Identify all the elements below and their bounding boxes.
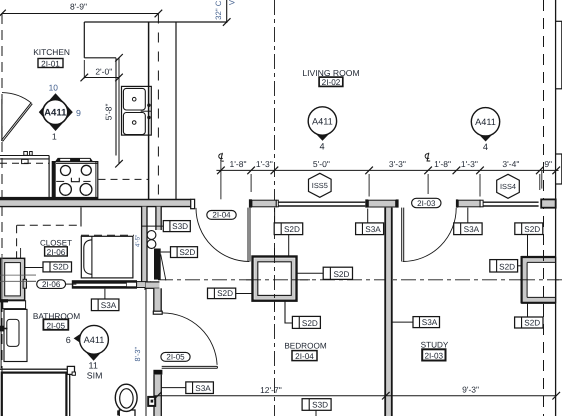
room tag 2I-02 xyxy=(319,77,343,86)
oval tag 2I-05 xyxy=(161,352,190,361)
svg-text:S2D: S2D xyxy=(284,225,300,234)
svg-text:2I-05: 2I-05 xyxy=(166,353,185,362)
stove/range xyxy=(52,162,98,199)
wall bedroom-study xyxy=(385,208,392,416)
svg-text:S2D: S2D xyxy=(217,289,233,298)
bathroom inner wall line xyxy=(145,288,147,416)
svg-text:A411: A411 xyxy=(84,335,105,345)
wall return top right xyxy=(226,0,228,23)
svg-text:STUDY: STUDY xyxy=(421,341,449,350)
door jamb cap dark xyxy=(153,370,162,375)
room tag 2I-06 xyxy=(45,247,68,256)
dimension string upper xyxy=(216,169,558,171)
svg-text:S3D: S3D xyxy=(312,401,328,410)
dimension 8'-9" xyxy=(2,13,158,15)
svg-text:3'-3": 3'-3" xyxy=(389,159,406,169)
bedroom column xyxy=(253,257,297,301)
hexagon ISS4 xyxy=(497,174,520,198)
chase centerline a xyxy=(0,274,36,276)
svg-text:S3A: S3A xyxy=(365,225,381,234)
study door leaf xyxy=(401,208,403,262)
svg-text:5'-0": 5'-0" xyxy=(313,159,330,169)
svg-text:2I-06: 2I-06 xyxy=(47,248,66,257)
keynote S2D bedroom lower xyxy=(285,300,292,323)
svg-text:32" C: 32" C xyxy=(214,0,223,20)
keynote S3A laundry xyxy=(104,289,106,299)
svg-text:KITCHEN: KITCHEN xyxy=(33,47,70,57)
centerline vertical mid xyxy=(274,0,276,416)
svg-text:S2D: S2D xyxy=(524,318,540,327)
corridor wall horizontal xyxy=(0,200,191,207)
keynote S2D bedroom mid xyxy=(297,272,323,274)
door jamb cap white xyxy=(191,199,195,208)
keynote S2D hall lower xyxy=(236,293,252,295)
closet dashed shelf xyxy=(17,224,81,226)
keynote S2D study left xyxy=(518,265,522,267)
keynote S3A bathroom xyxy=(161,387,186,389)
kitchen counter left edge xyxy=(83,22,85,58)
svg-text:2'-0": 2'-0" xyxy=(95,67,112,77)
svg-text:A411: A411 xyxy=(312,116,333,126)
window mullion right upper xyxy=(556,21,562,89)
bedroom window glazing xyxy=(278,201,365,203)
door hardware circles xyxy=(147,231,156,240)
dimension string bottom xyxy=(154,395,556,397)
oval tag 2I-06 xyxy=(37,280,66,289)
svg-text:S2D: S2D xyxy=(499,262,515,271)
keynote S3D bedroom bottom xyxy=(302,399,331,411)
svg-text:1'-3": 1'-3" xyxy=(461,159,478,169)
dimension 5'-8" xyxy=(118,58,120,164)
dashed counter line right of stove xyxy=(99,178,149,180)
washer dashed line xyxy=(81,234,134,236)
svg-text:4'-5": 4'-5" xyxy=(135,235,142,247)
closet divider line xyxy=(80,207,82,226)
svg-text:S2D: S2D xyxy=(53,262,69,271)
svg-text:12'-7": 12'-7" xyxy=(260,385,282,395)
svg-text:2I-03: 2I-03 xyxy=(417,199,436,208)
exterior wall line right xyxy=(555,0,557,416)
counter base thick edge xyxy=(0,197,98,200)
bathroom door leaf xyxy=(162,365,218,367)
elevation marker A411 bathroom xyxy=(74,331,85,345)
svg-text:2I-06: 2I-06 xyxy=(42,280,61,289)
closet door swing line xyxy=(161,254,166,280)
svg-text:2I-04: 2I-04 xyxy=(212,211,231,220)
wall bath-hall upper xyxy=(154,288,161,311)
svg-text:8'-9": 8'-9" xyxy=(70,1,87,11)
svg-text:1'-8": 1'-8" xyxy=(230,159,247,169)
vanity xyxy=(4,309,27,361)
shower xyxy=(0,369,70,416)
keynote S2D study topright xyxy=(527,235,529,257)
svg-text:S2D: S2D xyxy=(524,225,540,234)
wall accessory box xyxy=(148,397,155,406)
bathroom left wall line xyxy=(0,302,2,368)
chase tab xyxy=(23,279,26,288)
keynote S2D hall xyxy=(161,251,171,253)
keynote S3D hall xyxy=(142,225,163,227)
svg-text:10: 10 xyxy=(49,82,59,92)
centerline symbol 1 xyxy=(219,153,224,161)
bedroom door arc xyxy=(196,208,249,262)
svg-text:11: 11 xyxy=(89,360,98,370)
svg-text:S3A: S3A xyxy=(101,301,117,310)
study window jamb xyxy=(456,199,458,207)
platform gray cell xyxy=(137,282,146,288)
wall bath-hall lower xyxy=(154,375,161,416)
kitchen door xyxy=(1,99,3,141)
keynote S2D closet xyxy=(25,267,43,269)
bedroom door leaf xyxy=(247,208,249,262)
svg-text:3'-4": 3'-4" xyxy=(502,159,519,169)
svg-text:2I-03: 2I-03 xyxy=(424,352,443,361)
wall jog piece xyxy=(146,282,160,288)
dimension 2'-0" xyxy=(83,60,85,79)
window mullion right lower xyxy=(556,154,562,184)
svg-text:2I-01: 2I-01 xyxy=(41,59,60,68)
kitchen wall dashed centerline xyxy=(157,14,159,200)
chase centerline b xyxy=(0,280,36,282)
svg-text:1'-8": 1'-8" xyxy=(434,159,451,169)
washer xyxy=(81,236,133,278)
svg-text:9'-3": 9'-3" xyxy=(462,385,479,395)
kitchen wall line inner xyxy=(148,22,150,200)
centerline horizontal xyxy=(158,279,562,281)
toilet xyxy=(119,410,135,416)
svg-text:S3D: S3D xyxy=(172,222,188,231)
svg-text:4: 4 xyxy=(483,142,488,152)
kitchen counter front edge xyxy=(115,58,117,156)
refrigerator xyxy=(0,155,49,157)
closet door leaf (black) xyxy=(154,249,161,280)
centerline overlays through study column xyxy=(520,279,562,281)
kitchen wall line outer xyxy=(175,22,177,200)
elevation marker A411 LR-2 xyxy=(477,132,495,141)
oval tag 2I-04 xyxy=(207,211,236,220)
hexagon ISS5 xyxy=(309,173,332,197)
svg-text:1'-3": 1'-3" xyxy=(256,159,273,169)
svg-text:A411: A411 xyxy=(475,117,496,127)
oval leader xyxy=(66,283,77,285)
centerline symbol 2 xyxy=(425,153,430,161)
room tag 2I-04 xyxy=(292,351,317,361)
door jamb cap white xyxy=(153,311,162,314)
svg-text:9": 9" xyxy=(544,159,552,169)
svg-text:S2D: S2D xyxy=(333,270,349,279)
bathroom door arc xyxy=(163,313,218,365)
svg-text:S2D: S2D xyxy=(179,248,195,257)
svg-text:S2D: S2D xyxy=(302,319,318,328)
wall stub above door xyxy=(156,207,161,230)
study door arc xyxy=(403,208,457,262)
shower head xyxy=(67,366,74,374)
keynote S3A bedroom xyxy=(367,209,369,223)
svg-text:2I-02: 2I-02 xyxy=(322,78,341,87)
wall tick xyxy=(145,282,152,290)
oval tag 2I-03 xyxy=(412,198,441,207)
kitchen sink xyxy=(122,86,152,135)
extension lines xyxy=(220,162,222,199)
room tag 2I-01 xyxy=(38,59,63,68)
svg-text:6: 6 xyxy=(66,335,71,345)
study column xyxy=(521,257,556,304)
svg-text:SIM: SIM xyxy=(87,370,103,380)
room tag 2I-05 xyxy=(43,319,68,330)
svg-text:4: 4 xyxy=(319,141,324,151)
svg-text:ISS5: ISS5 xyxy=(312,181,328,190)
wall closet-hall xyxy=(142,207,147,283)
centerline overlays through column xyxy=(274,248,276,310)
room tag 2I-03 xyxy=(422,349,445,360)
property dashed line left xyxy=(1,14,3,416)
wall end right xyxy=(541,199,556,207)
wall T-piece xyxy=(365,199,368,207)
kitchen counter bottom edge xyxy=(84,57,116,59)
plumbing chase column xyxy=(1,258,25,300)
svg-text:9: 9 xyxy=(76,108,81,118)
washer platform xyxy=(72,280,137,289)
svg-text:A411: A411 xyxy=(44,107,67,118)
svg-text:V: V xyxy=(228,0,237,5)
svg-text:S3A: S3A xyxy=(195,384,211,393)
svg-text:2I-05: 2I-05 xyxy=(46,322,65,331)
svg-text:S3A: S3A xyxy=(464,225,480,234)
dashed line right xyxy=(543,0,545,416)
bedroom window jamb left xyxy=(249,199,252,207)
keynote S3A study top xyxy=(467,208,469,223)
keynote S3A study mid xyxy=(392,321,413,323)
svg-text:ISS4: ISS4 xyxy=(500,182,516,191)
svg-text:8'-3": 8'-3" xyxy=(133,346,142,361)
keynote S2D study lower xyxy=(527,303,529,317)
svg-text:BEDROOM: BEDROOM xyxy=(284,341,326,350)
svg-text:2I-04: 2I-04 xyxy=(295,352,314,361)
svg-text:S3A: S3A xyxy=(422,318,438,327)
keynote S2D bedroom top xyxy=(274,208,276,223)
elevation marker A411 LR-1 xyxy=(314,132,332,141)
svg-text:5'-8": 5'-8" xyxy=(104,103,114,120)
study window glazing xyxy=(483,201,538,203)
kitchen counter top edge xyxy=(84,21,226,23)
chase centerline overlays xyxy=(0,274,36,276)
svg-text:1: 1 xyxy=(52,131,57,141)
bath step outline xyxy=(3,301,26,309)
elevation marker A411 kitchen xyxy=(39,93,73,131)
